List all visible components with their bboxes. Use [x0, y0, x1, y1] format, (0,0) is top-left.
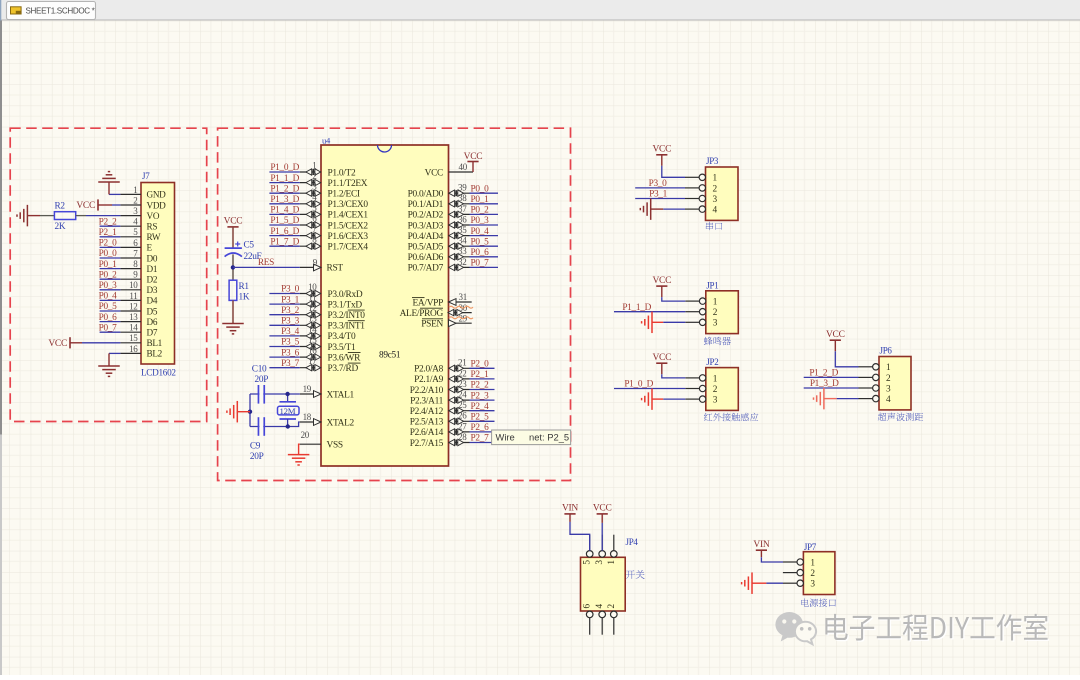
wire and net label P0_5 at J7 pin 12	[99, 302, 121, 312]
svg-text:3: 3	[713, 319, 718, 329]
junction crystal ground node	[248, 410, 252, 414]
wire and net label P3_1 at JP3 pin 3	[635, 190, 685, 200]
JP6 pin 3	[859, 384, 892, 394]
JP3 pin 3	[685, 195, 718, 205]
wire and net label P3_0 at JP3 pin 2	[635, 179, 685, 189]
J7 pin 13 D6	[120, 312, 157, 327]
tooltip Wire net P2_5	[492, 430, 571, 445]
wire and net label P1_1_D at U4 pin 2	[269, 174, 299, 184]
svg-text:20P: 20P	[250, 452, 264, 462]
svg-text:BL2: BL2	[147, 349, 163, 359]
U4 pin 32 P0.7/AD7	[408, 257, 470, 274]
svg-text:12M: 12M	[280, 406, 296, 416]
svg-text:P2_1: P2_1	[99, 228, 118, 238]
wire and net label P1_7_D at U4 pin 8	[269, 237, 299, 247]
svg-text:EA/VPP: EA/VPP	[413, 298, 444, 308]
junction XTAL2 node	[286, 424, 290, 428]
svg-text:32: 32	[458, 257, 466, 267]
J7 pin 3 VO	[120, 206, 159, 221]
svg-text:P3_2: P3_2	[281, 306, 300, 316]
svg-text:RS: RS	[147, 222, 158, 232]
svg-text:16: 16	[129, 344, 138, 354]
svg-text:Wire: Wire	[496, 431, 515, 442]
label 蜂鸣器	[704, 337, 731, 345]
svg-text:JP7: JP7	[804, 542, 817, 552]
ground at JP3 pin 4	[640, 198, 685, 220]
U4 pin 16 P3.6/WR	[300, 346, 361, 364]
svg-text:P1.5/CEX2: P1.5/CEX2	[328, 221, 369, 231]
resistor R1 1K	[229, 280, 250, 302]
svg-text:2: 2	[886, 374, 891, 384]
svg-text:P3_0: P3_0	[649, 179, 668, 189]
svg-text:3: 3	[713, 396, 718, 406]
wire and net label P3_3 at U4 pin 13	[269, 317, 299, 327]
document tab SHEET1.SCHDOC	[7, 2, 96, 20]
capacitor C9 20P	[250, 417, 264, 462]
svg-text:P1.6/CEX3: P1.6/CEX3	[328, 232, 369, 242]
ground left of crystal	[227, 401, 250, 423]
svg-text:P2.5/A13: P2.5/A13	[410, 418, 444, 428]
wire and net label P3_5 at U4 pin 15	[269, 338, 299, 348]
svg-text:P0_1: P0_1	[471, 195, 490, 205]
svg-text:P1_0_D: P1_0_D	[624, 380, 653, 390]
wire and net label P0_3 at J7 pin 10	[99, 281, 121, 291]
svg-text:C5: C5	[244, 241, 255, 251]
svg-text:P0_4: P0_4	[99, 292, 118, 302]
U4 pin 26 P2.5/A13	[410, 411, 470, 428]
svg-text:D7: D7	[147, 328, 158, 338]
svg-text:P2.7/A15: P2.7/A15	[410, 439, 444, 449]
wire and net label P0_5 at U4 pin 34	[470, 237, 499, 247]
svg-text:P2.6/A14: P2.6/A14	[410, 428, 444, 438]
svg-text:38: 38	[458, 193, 467, 203]
JP1 pin 3	[685, 319, 718, 329]
J7 pin 11 D4	[120, 291, 157, 306]
U4 pin 35 P0.4/AD4	[408, 225, 470, 242]
svg-text:E: E	[147, 243, 153, 253]
svg-text:JP3: JP3	[706, 156, 719, 166]
svg-text:1: 1	[133, 185, 137, 195]
U4 pin 17 P3.7/RD	[300, 356, 361, 374]
svg-text:VIN: VIN	[753, 540, 769, 550]
J7 pin 7 D0	[120, 248, 157, 263]
svg-text:C9: C9	[250, 441, 261, 451]
J7 pin 10 D3	[120, 280, 157, 295]
svg-text:P0.5/AD5: P0.5/AD5	[408, 243, 444, 253]
svg-text:2: 2	[713, 385, 718, 395]
watermark WeChat logo	[775, 612, 816, 644]
svg-text:D2: D2	[147, 275, 158, 285]
U4 pin 19 XTAL1	[300, 384, 355, 401]
svg-text:10: 10	[308, 282, 317, 292]
svg-text:89c51: 89c51	[379, 351, 401, 361]
ground at JP2 pin 3	[642, 388, 686, 410]
U4 pin 8 P1.7/CEX4	[300, 235, 369, 253]
crystal Y1 12M	[278, 394, 300, 427]
U4 pin 31 EA/VPP	[412, 292, 472, 308]
J7 pin 4 RS	[120, 217, 157, 232]
red dashed region box (LCD section)	[10, 128, 207, 421]
svg-text:PSEN: PSEN	[421, 320, 443, 330]
U4 pin 38 P0.1/AD1	[408, 193, 470, 210]
VIN power port at JP7 pin 1	[753, 540, 783, 562]
svg-text:P3.6/WR: P3.6/WR	[328, 353, 362, 363]
J7 pin 5 RW	[120, 227, 160, 242]
wire and net label P3_2 at U4 pin 12	[269, 306, 299, 316]
U4 pin 34 P0.5/AD5	[408, 236, 470, 253]
svg-text:2: 2	[713, 308, 718, 318]
VCC power port at JP1 pin 1	[652, 276, 685, 301]
VCC power port at U4 pin 40	[464, 152, 483, 172]
svg-text:JP2: JP2	[706, 357, 718, 367]
svg-text:P2.1/A9: P2.1/A9	[414, 375, 444, 385]
svg-text:LCD1602: LCD1602	[141, 368, 176, 378]
label 电源接口	[801, 598, 836, 606]
JP6 pin 4	[859, 395, 892, 405]
svg-text:16: 16	[308, 346, 317, 356]
U4 pin 33 P0.6/AD6	[408, 246, 470, 263]
svg-text:13: 13	[129, 312, 138, 322]
svg-text:D3: D3	[147, 285, 158, 295]
svg-text:P0_0: P0_0	[99, 249, 118, 259]
VCC power port at JP4	[593, 504, 612, 551]
ground at JP7 pin 3	[742, 572, 783, 594]
svg-text:VCC: VCC	[76, 201, 95, 211]
label 串口	[706, 222, 722, 230]
svg-text:P2.0/A8: P2.0/A8	[414, 365, 444, 375]
wire and net label P1_4_D at U4 pin 5	[269, 206, 299, 216]
svg-text:6: 6	[583, 604, 593, 609]
resistor R2 2K	[40, 202, 86, 233]
svg-text:net: P2_5: net: P2_5	[529, 431, 569, 442]
svg-text:2: 2	[713, 184, 718, 194]
U4 pin 5 P1.4/CEX1	[300, 203, 369, 221]
svg-text:D6: D6	[147, 317, 158, 327]
U4 pin 10 P3.0/RxD	[300, 282, 363, 300]
svg-text:P3_1: P3_1	[281, 295, 300, 305]
wire and net label P3_1 at U4 pin 11	[269, 295, 299, 305]
svg-text:2: 2	[312, 171, 316, 181]
wire and net label P2_0 at J7 pin 6	[99, 239, 121, 249]
svg-text:P1_1_D: P1_1_D	[270, 174, 299, 184]
svg-text:P0.6/AD6: P0.6/AD6	[408, 253, 444, 263]
svg-text:10: 10	[129, 280, 138, 290]
svg-text:P3_3: P3_3	[281, 317, 300, 327]
svg-text:P1_2_D: P1_2_D	[270, 184, 299, 194]
svg-text:P1.7/CEX4: P1.7/CEX4	[328, 243, 369, 253]
svg-text:P0_2: P0_2	[99, 270, 118, 280]
svg-text:P0.4/AD4: P0.4/AD4	[408, 232, 444, 242]
svg-text:1: 1	[713, 374, 718, 384]
svg-text:RES: RES	[258, 258, 274, 268]
svg-text:JP1: JP1	[706, 280, 718, 290]
J7 pin 6 E	[120, 238, 152, 253]
svg-text:P0_7: P0_7	[471, 259, 490, 269]
svg-text:P2_2: P2_2	[99, 217, 118, 227]
svg-text:1: 1	[312, 160, 316, 170]
JP4 bottom pin 2	[607, 604, 617, 635]
svg-text:P1_2_D: P1_2_D	[809, 369, 838, 379]
capacitor C10 20P	[252, 364, 268, 403]
svg-text:P1_5_D: P1_5_D	[270, 216, 299, 226]
wire and net label P0_1 at U4 pin 38	[470, 195, 499, 205]
U4 pin 3 P1.2/ECI	[300, 182, 360, 200]
svg-text:P1_7_D: P1_7_D	[270, 237, 299, 247]
svg-text:18: 18	[303, 412, 312, 422]
svg-text:P2.4/A12: P2.4/A12	[410, 407, 444, 417]
JP2 pin 3	[685, 396, 718, 406]
wire and net label P1_2_D at JP6 pin 2	[804, 369, 859, 379]
JP2 pin 1	[685, 374, 718, 384]
svg-text:P0_5: P0_5	[99, 302, 118, 312]
svg-text:P3_5: P3_5	[281, 338, 300, 348]
svg-text:P0_3: P0_3	[471, 216, 490, 226]
svg-text:1: 1	[713, 298, 718, 308]
connector J7 LCD1602 body	[141, 171, 176, 378]
svg-text:BL1: BL1	[147, 338, 163, 348]
JP4 top pin 3	[595, 535, 605, 565]
svg-text:R2: R2	[55, 202, 66, 212]
svg-text:P1_6_D: P1_6_D	[270, 227, 299, 237]
connector JP4 body	[581, 537, 639, 611]
svg-text:VIN: VIN	[562, 504, 578, 514]
U4 pin 37 P0.2/AD2	[408, 204, 470, 221]
svg-text:13: 13	[308, 314, 317, 324]
JP4 top pin 5	[583, 535, 593, 565]
svg-text:3: 3	[595, 560, 605, 565]
svg-text:P1_4_D: P1_4_D	[270, 206, 299, 216]
tab bar	[0, 0, 1080, 21]
svg-text:P3_0: P3_0	[281, 285, 300, 295]
wire and net label P2_5 at U4 pin 26	[470, 413, 495, 423]
svg-text:P3.1/TxD: P3.1/TxD	[328, 300, 363, 310]
ground below J7 pin 16	[98, 353, 120, 376]
svg-text:3: 3	[810, 580, 815, 590]
svg-text:25: 25	[458, 400, 467, 410]
U4 pin 15 P3.5/T1	[300, 335, 356, 353]
wire and net label P2_0 at U4 pin 21	[470, 360, 495, 370]
svg-text:P1_0_D: P1_0_D	[270, 163, 299, 173]
svg-text:XTAL1: XTAL1	[327, 390, 355, 400]
svg-text:D0: D0	[147, 253, 158, 263]
wire and net label P0_7 at J7 pin 14	[99, 323, 121, 333]
wire and net label P0_0 at U4 pin 39	[470, 184, 499, 194]
U4 pin 39 P0.0/AD0	[408, 183, 470, 200]
svg-text:P2.2/A10: P2.2/A10	[410, 386, 444, 396]
VCC power port at J7 pin 15 (BL1)	[48, 337, 120, 349]
JP1 pin 1	[685, 298, 718, 308]
svg-text:P2_0: P2_0	[99, 239, 118, 249]
svg-text:R1: R1	[239, 282, 250, 292]
JP3 pin 4	[685, 206, 718, 216]
connector JP3 body	[706, 156, 739, 220]
svg-text:15: 15	[308, 335, 317, 345]
junction XTAL1 node	[285, 392, 289, 396]
VCC power port at J7 pin 2	[76, 199, 120, 211]
compile-error squiggle under pin 30 number	[449, 306, 473, 308]
svg-text:P3.2/INT0: P3.2/INT0	[328, 311, 366, 321]
wire RES net to U4 RST	[233, 258, 300, 268]
svg-text:1: 1	[886, 363, 891, 373]
svg-text:21: 21	[458, 358, 466, 368]
U4 pin 4 P1.3/CEX0	[300, 192, 369, 210]
watermark text	[827, 615, 1049, 642]
wire R1 to ground	[232, 300, 234, 323]
U4 pin 30 ALE/PROG	[400, 303, 472, 319]
J7 pin 12 D5	[120, 301, 157, 316]
svg-text:P2_5: P2_5	[471, 413, 490, 423]
wire and net label P2_1 at U4 pin 22	[470, 370, 495, 380]
svg-text:3: 3	[713, 195, 718, 205]
svg-text:28: 28	[458, 432, 467, 442]
VCC power port at JP6 pin 1	[826, 330, 859, 367]
svg-text:GND: GND	[147, 190, 167, 200]
svg-text:37: 37	[458, 204, 467, 214]
svg-text:P0_2: P0_2	[471, 206, 490, 216]
svg-text:C10: C10	[252, 364, 267, 374]
svg-text:P3.4/T0: P3.4/T0	[328, 332, 356, 342]
red dashed region box (MCU section)	[218, 128, 571, 480]
wire and net label P1_2_D at U4 pin 3	[269, 184, 299, 194]
svg-text:D1: D1	[147, 264, 158, 274]
svg-text:VCC: VCC	[425, 168, 443, 178]
U4 pin 36 P0.3/AD3	[408, 214, 470, 231]
svg-text:26: 26	[458, 411, 467, 421]
svg-text:2K: 2K	[55, 222, 66, 232]
svg-text:2: 2	[607, 604, 617, 609]
wire and net label P2_2 at J7 pin 4	[99, 217, 121, 227]
svg-text:P2_6: P2_6	[471, 423, 490, 433]
U4 pin 25 P2.4/A12	[410, 400, 470, 417]
ground at JP6 pin 4	[814, 388, 859, 410]
U4 pin 28 P2.7/A15	[410, 432, 470, 449]
svg-text:VDD: VDD	[147, 200, 167, 210]
wire and net label P0_4 at U4 pin 35	[470, 227, 499, 237]
connector JP2 body	[706, 357, 739, 410]
junction at RES node	[231, 265, 235, 269]
JP1 pin 2	[685, 308, 718, 318]
svg-text:P0_1: P0_1	[99, 260, 118, 270]
VCC power port at JP3 pin 1	[652, 145, 685, 178]
U4 pin 13 P3.3/INT1	[300, 314, 365, 332]
svg-text:P1.1/T2EX: P1.1/T2EX	[328, 179, 368, 189]
U4 pin 11 P3.1/TxD	[300, 293, 363, 311]
U4 pin 29 PSEN	[421, 313, 471, 329]
U4 pin 20 VSS	[300, 430, 343, 451]
svg-text:12: 12	[308, 303, 316, 313]
U4 pin 40 VCC	[425, 162, 473, 178]
svg-text:P3.0/RxD: P3.0/RxD	[328, 290, 363, 300]
svg-text:4: 4	[595, 604, 605, 609]
svg-text:JP6: JP6	[880, 346, 893, 356]
svg-text:1: 1	[607, 560, 617, 565]
svg-text:P0_6: P0_6	[99, 313, 118, 323]
svg-text:XTAL2: XTAL2	[327, 418, 355, 428]
svg-text:VCC: VCC	[652, 353, 671, 363]
svg-text:RW: RW	[147, 232, 161, 242]
svg-text:P2.3/A11: P2.3/A11	[410, 396, 444, 406]
canvas left edge	[0, 21, 2, 435]
wire XTAL1 loop top	[250, 393, 300, 395]
compile-error squiggle under pin 29 number	[449, 317, 473, 319]
IC U4 89c51 body	[321, 136, 449, 467]
wire and net label P0_7 at U4 pin 32	[470, 259, 499, 269]
wire VSS to ground	[299, 444, 300, 454]
svg-text:P0_0: P0_0	[471, 184, 490, 194]
JP6 pin 2	[859, 374, 892, 384]
svg-text:12: 12	[129, 301, 137, 311]
svg-text:P2_0: P2_0	[471, 360, 490, 370]
svg-text:4: 4	[713, 206, 718, 216]
ground at JP1 pin 3	[642, 312, 686, 334]
svg-text:P2_1: P2_1	[471, 370, 490, 380]
svg-text:39: 39	[458, 183, 467, 193]
svg-text:P1.3/CEX0: P1.3/CEX0	[328, 200, 369, 210]
wire and net label P1_5_D at U4 pin 6	[269, 216, 299, 226]
wire and net label P3_0 at U4 pin 10	[269, 285, 299, 295]
wire and net label P0_0 at J7 pin 7	[99, 249, 121, 259]
svg-text:P1_1_D: P1_1_D	[622, 303, 651, 313]
svg-text:P1.2/ECI: P1.2/ECI	[328, 190, 360, 200]
wire and net label P2_7 at U4 pin 28	[470, 434, 495, 444]
svg-text:D5: D5	[147, 306, 158, 316]
U4 pin 14 P3.4/T0	[300, 324, 356, 342]
U4 pin 6 P1.5/CEX2	[300, 213, 369, 231]
JP7 pin 2	[783, 569, 816, 579]
svg-text:P3_6: P3_6	[281, 348, 300, 358]
JP4 bottom pin 6	[583, 604, 593, 635]
svg-text:P0.1/AD1: P0.1/AD1	[408, 200, 444, 210]
svg-text:P1.4/CEX1: P1.4/CEX1	[328, 211, 369, 221]
VIN power port at JP4	[562, 504, 590, 551]
svg-text:23: 23	[458, 379, 467, 389]
wire C5 to junction	[232, 254, 234, 280]
svg-text:P3.3/INT1: P3.3/INT1	[328, 322, 366, 332]
svg-text:P0.2/AD2: P0.2/AD2	[408, 211, 444, 221]
J7 pin 1 GND	[120, 185, 166, 200]
svg-text:VCC: VCC	[224, 217, 243, 227]
svg-text:P3.5/T1: P3.5/T1	[328, 343, 356, 353]
label 开关	[626, 570, 645, 579]
wire and net label P0_6 at U4 pin 33	[470, 248, 499, 258]
label 红外接触感应	[704, 413, 758, 421]
JP3 pin 1	[685, 174, 718, 184]
U4 pin 23 P2.2/A10	[410, 379, 470, 396]
svg-text:P1_3_D: P1_3_D	[810, 379, 839, 389]
svg-text:14: 14	[129, 323, 138, 333]
svg-text:33: 33	[458, 246, 467, 256]
svg-text:24: 24	[458, 390, 467, 400]
U4 pin 22 P2.1/A9	[414, 368, 469, 385]
label 超声波测距	[878, 413, 923, 421]
svg-text:P0_3: P0_3	[99, 281, 118, 291]
wire and net label P3_4 at U4 pin 14	[269, 327, 299, 337]
wire and net label P1_1_D at JP1 pin 2	[614, 303, 685, 313]
wire XTAL2 loop bottom	[250, 422, 300, 427]
svg-text:P0.7/AD7: P0.7/AD7	[408, 264, 444, 274]
JP7 pin 3	[783, 580, 816, 590]
wire and net label P0_2 at U4 pin 37	[470, 206, 499, 216]
connector JP1 body	[706, 280, 739, 333]
svg-text:P2_2: P2_2	[471, 381, 490, 391]
ground below U4 VSS	[288, 455, 310, 465]
capacitor C5 22uF (polarized)	[225, 241, 262, 262]
JP2 pin 2	[685, 385, 718, 395]
svg-text:P0.3/AD3: P0.3/AD3	[408, 221, 444, 231]
U4 pin 21 P2.0/A8	[414, 358, 469, 375]
U4 pin 24 P2.3/A11	[410, 390, 469, 407]
svg-text:15: 15	[129, 333, 138, 343]
